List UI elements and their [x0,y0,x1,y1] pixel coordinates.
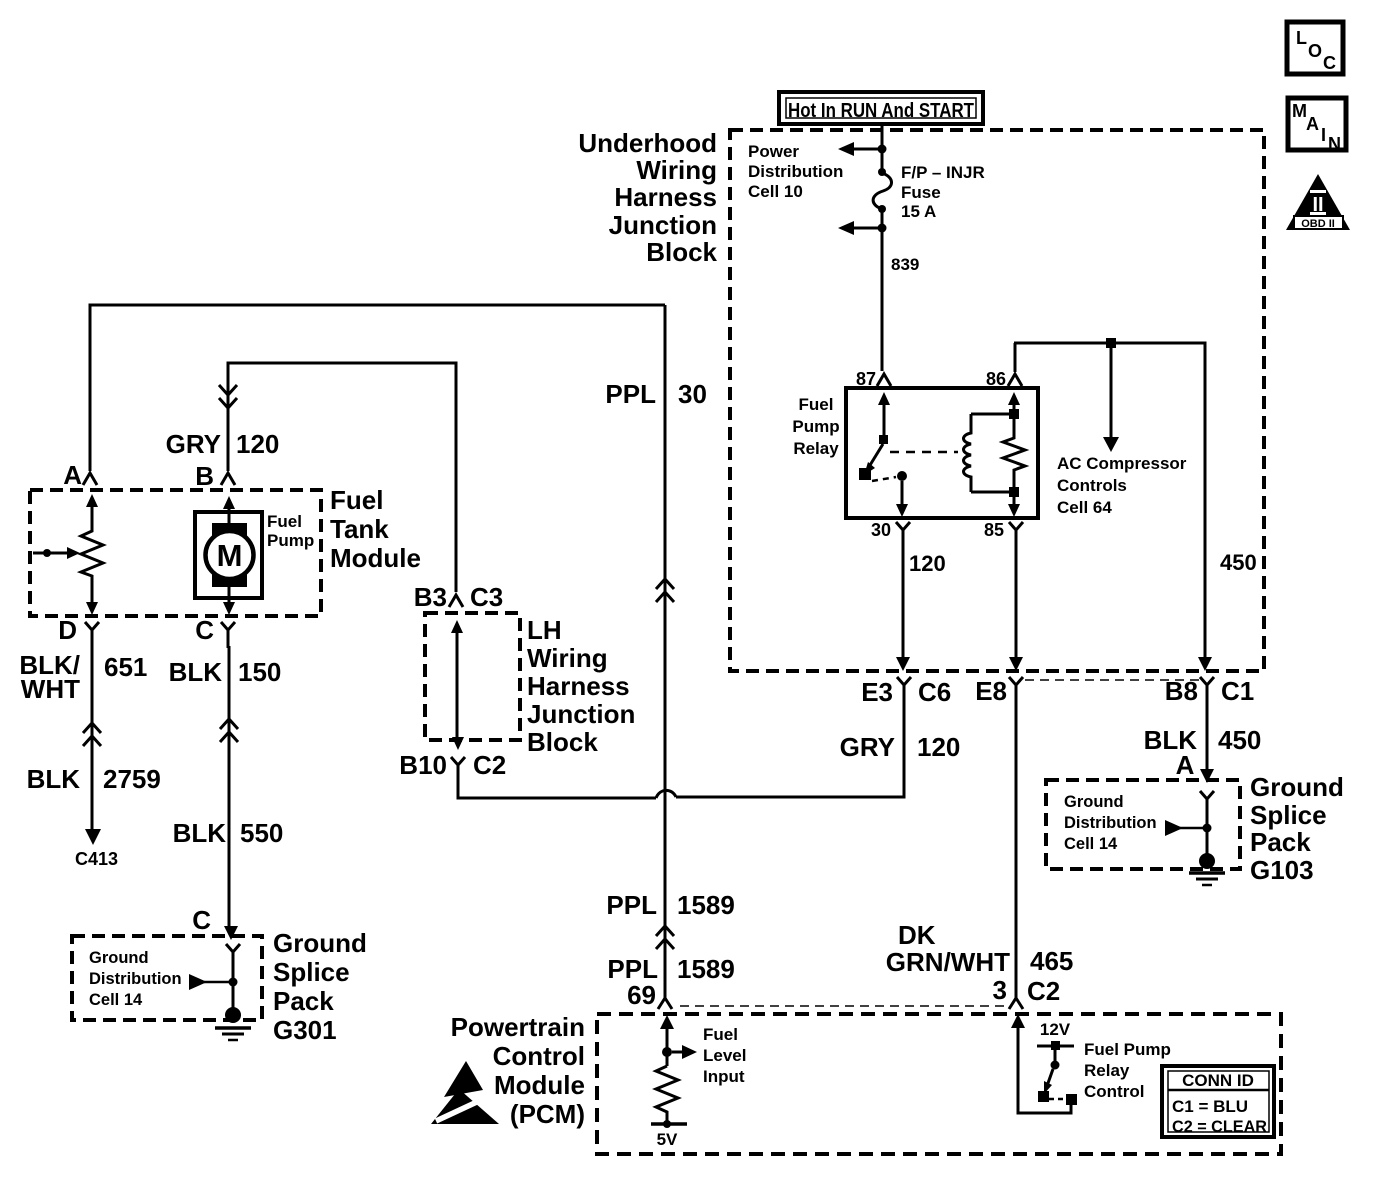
label Fuel Pump Relay [792,395,839,458]
label Underhood Wiring Harness Junction Block [578,128,717,267]
svg-text:Underhood: Underhood [578,128,717,158]
relay switch contact from 87 [859,392,890,480]
svg-text:Level: Level [703,1046,746,1065]
svg-text:C413: C413 [75,849,118,869]
svg-text:(PCM): (PCM) [510,1099,585,1129]
LH wiring harness junction block dashed box [425,613,520,740]
wire 839 to relay pin 87 [881,230,884,371]
svg-text:C2: C2 [473,750,506,780]
AC branch junction [1106,338,1116,348]
fuel tank module dashed box [30,490,321,616]
pull-up resistor to 5V [656,1066,678,1124]
junction node above fuse [878,145,887,154]
fuel pump motor M [195,496,262,615]
label Powertrain Control Module (PCM) [451,1012,585,1129]
svg-text:Pack: Pack [1250,827,1311,857]
inline connector on GRY wire (down) [219,385,237,408]
svg-text:C: C [195,615,214,645]
node D [58,615,99,648]
svg-text:AC Compressor: AC Compressor [1057,454,1187,473]
wire GRY 120 rail from B to B3 [228,363,456,592]
svg-text:GRY: GRY [840,732,895,762]
fuel level sender resistor [81,494,103,615]
arrow to Power Distribution (bottom) [838,221,878,235]
label F/P-INJR Fuse 15 A [901,163,985,221]
label Fuel Pump [267,512,314,550]
label BLK 550 [173,818,284,848]
svg-text:Input: Input [703,1067,745,1086]
svg-text:Powertrain: Powertrain [451,1012,585,1042]
fuel pump relay control wire inside PCM [1011,1014,1077,1113]
svg-text:Power: Power [748,142,799,161]
svg-text:Harness: Harness [527,671,630,701]
svg-text:BLK: BLK [173,818,227,848]
svg-text:Control: Control [493,1041,585,1071]
svg-text:Wiring: Wiring [527,643,608,673]
wire from pin 85 to E8 [1015,540,1018,657]
label GRY 120 (right) [840,732,961,762]
wire to ground G103 [1206,810,1209,855]
arrow to AC Compressor Controls [1103,348,1119,452]
wire PPL 30 top rail from node A to center [90,305,665,471]
svg-text:Junction: Junction [609,210,717,240]
svg-text:E8: E8 [975,676,1007,706]
svg-text:OBD II: OBD II [1301,218,1335,230]
svg-text:C1 = BLU: C1 = BLU [1172,1097,1248,1116]
node C at G301 [192,905,238,940]
svg-text:Fuel: Fuel [703,1025,738,1044]
fuel level input arrow [672,1045,697,1059]
connector E3 C6 [861,677,951,707]
relay pin 87 connector [856,369,891,389]
driver switch Q1 [1038,1050,1066,1102]
inline connector on BLK 550 wire [220,719,238,742]
svg-text:Module: Module [330,543,421,573]
svg-text:839: 839 [891,255,919,274]
svg-text:C: C [1323,53,1336,73]
LOC symbol box [1287,22,1343,74]
AC compressor branch wire [1014,343,1205,657]
wire from 86 into relay [1008,392,1020,410]
svg-text:2759: 2759 [103,764,161,794]
svg-text:Wiring: Wiring [636,155,717,185]
connector face dashed line C2 inside PCM [680,1005,1006,1007]
svg-text:BLK: BLK [27,764,81,794]
node C fuel tank [195,615,235,648]
svg-text:Pack: Pack [273,986,334,1016]
svg-text:450: 450 [1218,725,1261,755]
connector A inside G103 [1200,791,1214,812]
svg-text:BLK: BLK [169,657,223,687]
connector B8 C1 [1165,676,1255,706]
wire from B10 to hop [458,776,656,798]
svg-text:Ground: Ground [273,928,367,958]
connector 69 at PCM [658,998,672,1009]
svg-text:450: 450 [1220,550,1257,575]
svg-text:150: 150 [238,657,281,687]
wire hop over PPL wire [656,790,676,798]
svg-text:C3: C3 [470,582,503,612]
label BLK/WHT 651 [19,650,147,704]
ground symbol G301 [215,1007,251,1040]
svg-text:Relay: Relay [793,439,839,458]
svg-text:Ground: Ground [1250,772,1344,802]
connector 3 C2 at PCM [993,975,1061,1009]
svg-text:30: 30 [678,379,707,409]
svg-text:A: A [63,460,82,490]
svg-text:Pump: Pump [792,417,839,436]
relay pin 85 connector [984,520,1023,540]
arrow at E3 [896,657,910,671]
svg-text:120: 120 [917,732,960,762]
svg-text:B3: B3 [414,582,447,612]
wire from Hot In RUN to fuse [881,126,884,147]
label DK GRN/WHT 465 [886,920,1074,977]
arrow to C413 [85,829,101,845]
svg-text:465: 465 [1030,946,1073,976]
junction node below fuse [878,224,887,233]
svg-text:Hot In RUN And START: Hot In RUN And START [788,100,974,122]
label Ground Splice Pack G301 [273,928,367,1045]
ground splice pack G103 dashed box [1046,780,1240,869]
svg-text:1589: 1589 [677,954,735,984]
svg-text:Block: Block [527,727,598,757]
arrow into G103 [1200,769,1214,783]
svg-text:1589: 1589 [677,890,735,920]
svg-text:3: 3 [993,975,1007,1005]
svg-text:Pump: Pump [267,531,314,550]
wire BLK 450 from B8 to G103 [1206,700,1209,769]
svg-text:120: 120 [236,429,279,459]
svg-text:Harness: Harness [614,182,717,212]
fuel level input wire inside PCM [660,1015,674,1066]
svg-text:85: 85 [984,520,1004,540]
svg-text:B10: B10 [399,750,447,780]
fuel level input junction [662,1047,672,1057]
label BLK 150 [169,657,282,687]
label Fuel Pump Relay Control [1084,1040,1171,1101]
svg-text:CONN ID: CONN ID [1182,1071,1254,1090]
svg-text:Cell 64: Cell 64 [1057,498,1112,517]
connector B10 C2 [399,750,506,780]
fuse F/P-INJR 15A [873,151,891,226]
label Ground Splice Pack G103 [1250,772,1344,885]
label Fuel Level Input [703,1025,746,1086]
wire through LH junction block [451,620,464,750]
svg-text:550: 550 [240,818,283,848]
ESD warning symbol [431,1061,499,1124]
connector face dashed line E8-B8 [1025,679,1200,681]
svg-text:Cell 14: Cell 14 [1064,835,1118,853]
svg-text:Distribution: Distribution [748,162,843,181]
MAIN symbol box [1288,98,1346,154]
svg-text:Distribution: Distribution [89,970,182,988]
label Ground Distribution Cell 14 (G103) [1064,793,1157,853]
relay armature dashed link [890,451,958,454]
svg-text:Cell 10: Cell 10 [748,182,803,201]
inline connector on BLK/WHT wire [83,723,101,746]
svg-text:Distribution: Distribution [1064,814,1157,832]
svg-text:69: 69 [627,980,656,1010]
svg-text:C2: C2 [1027,976,1060,1006]
svg-text:651: 651 [104,652,147,682]
svg-text:M: M [1292,101,1307,121]
arrow to Power Distribution (top) [838,142,878,156]
svg-text:Control: Control [1084,1082,1144,1101]
connector C inside G301 [226,944,240,964]
svg-text:B: B [195,461,214,491]
CONN ID table [1162,1066,1274,1137]
svg-text:Controls: Controls [1057,476,1127,495]
svg-text:Ground: Ground [1064,793,1124,811]
svg-text:Module: Module [494,1070,585,1100]
PCM dashed box [597,1014,1281,1154]
node B fuel tank [195,461,235,491]
svg-text:12V: 12V [1040,1020,1071,1039]
svg-text:Splice: Splice [273,957,350,987]
5V supply bar [651,1120,687,1149]
svg-text:DK: DK [898,920,936,950]
inline connector on PPL wire [656,579,674,602]
svg-text:A: A [1306,114,1319,134]
wire GRY 120 from E3 down and left [676,700,904,797]
node A fuel tank [63,460,97,490]
label PPL 1589 69 (lower) [607,954,734,1010]
svg-text:30: 30 [871,520,891,540]
svg-text:D: D [58,615,77,645]
svg-text:Fuel Pump: Fuel Pump [1084,1040,1171,1059]
svg-text:Fuel: Fuel [267,512,302,531]
wire BLK/WHT 651 [91,646,94,830]
relay contact to pin 30 [872,471,908,517]
inline connector on PPL 1589 wire [656,926,674,949]
label Power Distribution Cell 10 [748,142,843,201]
label BLK 2759 [27,764,161,794]
svg-text:Fuse: Fuse [901,183,941,202]
svg-text:LH: LH [527,615,562,645]
svg-text:E3: E3 [861,677,893,707]
relay coil [964,414,1015,492]
svg-text:I: I [1321,125,1326,145]
label AC Compressor Controls Cell 64 [1057,454,1187,517]
wire BLK 150 / BLK 550 [228,646,231,927]
svg-text:GRY: GRY [166,429,221,459]
branch arrow inside G301 [189,974,238,990]
wire PPL 30 vertical [664,305,667,998]
label Fuel Tank Module [330,485,421,573]
svg-text:Splice: Splice [1250,800,1327,830]
svg-text:C2 = CLEAR: C2 = CLEAR [1172,1117,1267,1136]
svg-text:M: M [217,538,243,573]
ground symbol G103 [1189,853,1225,885]
wire DK GRN/WHT 465 from E8 to PCM pin 3 [1015,700,1018,998]
svg-text:Block: Block [646,237,717,267]
label LH Wiring Harness Junction Block [527,615,635,757]
label PPL 1589 (upper) [606,890,734,920]
svg-text:G103: G103 [1250,855,1314,885]
svg-text:PPL: PPL [606,890,657,920]
svg-text:F/P – INJR: F/P – INJR [901,163,985,182]
wire 120 from pin 30 [902,540,905,657]
svg-text:C1: C1 [1221,676,1254,706]
12V supply bar [1037,1041,1074,1050]
relay resistor (parallel with coil) [1003,419,1025,487]
Underhood Wiring Harness Junction Block dashed box [730,130,1264,671]
label PPL 30 [605,379,707,409]
relay pin 30 connector [871,520,910,540]
svg-text:15 A: 15 A [901,202,936,221]
label GRY 120 (left) [166,429,280,459]
svg-text:Relay: Relay [1084,1061,1130,1080]
svg-text:L: L [1296,28,1307,48]
svg-text:G301: G301 [273,1015,337,1045]
svg-text:GRN/WHT: GRN/WHT [886,947,1010,977]
svg-text:120: 120 [909,551,946,576]
connector E8 [975,676,1023,706]
relay pin 86 connector [986,369,1022,389]
svg-text:A: A [1176,750,1195,780]
ground splice pack G301 dashed box [72,936,262,1020]
svg-text:Fuel: Fuel [799,395,834,414]
arrow at E8 [1009,657,1023,671]
fuel pump relay box U1 [846,388,1038,518]
svg-text:C: C [192,905,211,935]
svg-text:Ground: Ground [89,949,149,967]
OBD II triangle symbol [1286,174,1350,230]
Hot In RUN And START label box [779,92,983,124]
branch arrow inside G103 [1165,820,1212,836]
svg-text:Fuel: Fuel [330,485,383,515]
svg-text:C6: C6 [918,677,951,707]
svg-text:PPL: PPL [605,379,656,409]
svg-text:Junction: Junction [527,699,635,729]
wire 86 up to AC branch [1014,343,1017,372]
sender wiper arrow [33,547,80,559]
svg-text:Tank: Tank [330,514,389,544]
svg-text:5V: 5V [657,1130,678,1149]
coil top junction [1009,409,1019,419]
svg-text:O: O [1308,41,1322,61]
svg-text:N: N [1328,134,1341,154]
label Ground Distribution Cell 14 (G301) [89,949,182,1009]
label BLK 450 [1144,725,1262,755]
coil bottom junction [1009,487,1019,497]
svg-text:Cell 14: Cell 14 [89,991,143,1009]
wire from coil to pin 85 [1008,497,1020,517]
wire to ground G301 [232,962,235,1010]
connector B3 C3 [414,582,504,612]
arrow at B8 [1198,657,1212,671]
svg-text:WHT: WHT [21,674,80,704]
